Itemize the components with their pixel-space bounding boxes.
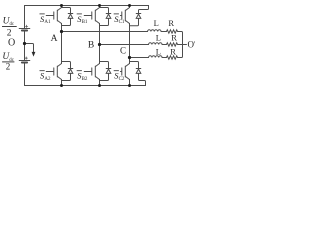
leg C wire bbox=[129, 6, 131, 86]
node C bbox=[128, 56, 131, 59]
node B bbox=[98, 43, 101, 46]
wire O' stub bbox=[183, 44, 187, 46]
svg-text:A1: A1 bbox=[44, 20, 51, 25]
svg-text:O′: O′ bbox=[188, 39, 196, 49]
battery E1 long plate bbox=[19, 28, 30, 30]
diode D_C1 bbox=[130, 6, 149, 26]
svg-text:O: O bbox=[8, 37, 15, 48]
inductor L1 bbox=[148, 30, 167, 32]
bottom rail bbox=[25, 85, 146, 87]
wire phase A tap bbox=[62, 31, 148, 33]
label S_B1 bbox=[77, 14, 88, 25]
transistor S_C2 bbox=[120, 64, 129, 80]
label S_C1 bbox=[114, 14, 125, 25]
junction top B bbox=[98, 4, 101, 7]
junction bottom B bbox=[98, 84, 101, 87]
svg-text:A: A bbox=[51, 34, 58, 44]
svg-text:R: R bbox=[170, 47, 176, 57]
node A bbox=[60, 30, 63, 33]
svg-text:R: R bbox=[171, 33, 177, 43]
junction bottom C bbox=[128, 84, 131, 87]
diode D_C2 bbox=[130, 62, 146, 86]
battery E2 plus bbox=[25, 57, 27, 59]
transistor S_B2 bbox=[84, 64, 99, 80]
battery E2 long plate bbox=[19, 60, 30, 62]
svg-text:C2: C2 bbox=[119, 77, 125, 82]
wire phase C tap bbox=[130, 57, 149, 59]
svg-text:L: L bbox=[154, 18, 159, 28]
transistor S_C1 bbox=[120, 8, 129, 24]
leg A wire bbox=[61, 6, 63, 86]
leg B wire bbox=[99, 6, 101, 86]
battery E2 short plate bbox=[22, 62, 27, 64]
svg-text:B2: B2 bbox=[82, 77, 88, 82]
junction bottom A bbox=[60, 84, 63, 87]
svg-text:C1: C1 bbox=[119, 20, 125, 25]
resistor R2 bbox=[167, 43, 183, 46]
svg-text:L: L bbox=[156, 33, 161, 43]
wire O arrow stub bbox=[25, 44, 34, 53]
svg-text:B1: B1 bbox=[82, 20, 88, 25]
battery E1 plus bbox=[25, 25, 27, 27]
diode D_B1 bbox=[100, 8, 111, 26]
wire phase B tap bbox=[100, 44, 149, 46]
node O bbox=[23, 42, 26, 45]
resistor R1 bbox=[167, 30, 182, 33]
junction top C bbox=[128, 4, 131, 7]
inductor L3 bbox=[149, 56, 167, 58]
diode D_B2 bbox=[100, 62, 111, 81]
transistor S_A2 bbox=[46, 64, 61, 80]
transistor S_A1 bbox=[46, 8, 61, 24]
diode D_A1 bbox=[62, 8, 73, 26]
wire O' bus bbox=[182, 32, 183, 58]
diode D_A2 bbox=[62, 62, 73, 81]
label S_C2 bbox=[114, 70, 125, 81]
resistor R3 bbox=[167, 56, 182, 59]
svg-text:2: 2 bbox=[6, 62, 11, 72]
svg-text:R: R bbox=[168, 18, 174, 28]
svg-text:L: L bbox=[156, 47, 161, 57]
label S_B2 bbox=[77, 70, 88, 81]
node O arrow head bbox=[32, 52, 36, 57]
label S_A2 bbox=[40, 70, 52, 81]
battery E1 short plate bbox=[22, 30, 27, 32]
svg-text:B: B bbox=[88, 41, 94, 51]
svg-text:C: C bbox=[120, 46, 126, 56]
wire left DC bus bbox=[24, 6, 26, 86]
top rail bbox=[25, 5, 149, 7]
svg-text:A2: A2 bbox=[44, 77, 51, 82]
label S_A1 bbox=[40, 14, 52, 25]
inductor L2 bbox=[149, 43, 167, 45]
junction top A bbox=[60, 4, 63, 7]
transistor S_B1 bbox=[84, 8, 99, 24]
